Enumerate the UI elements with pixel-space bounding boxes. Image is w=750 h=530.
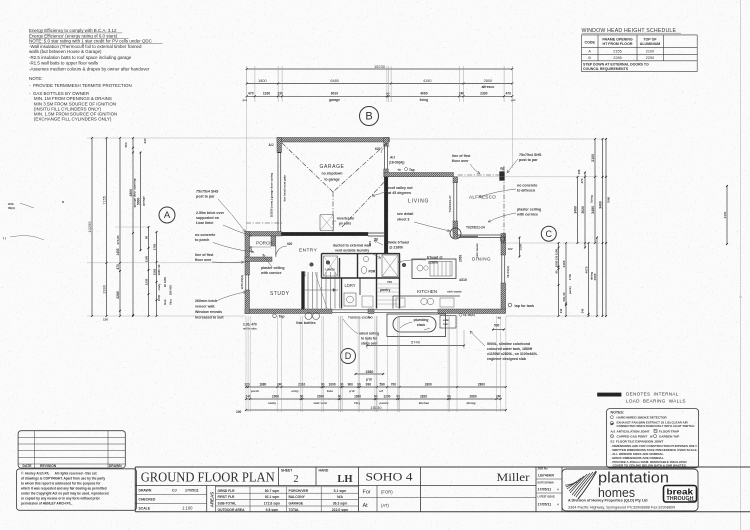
svg-text:plumbing: plumbing: [414, 318, 429, 322]
svg-text:2/20-09(A): 2/20-09(A): [240, 275, 244, 289]
svg-text:CHECKED: CHECKED: [139, 498, 156, 502]
svg-text:to garage: to garage: [324, 178, 339, 182]
svg-text:(18-O6(A)): (18-O6(A)): [389, 161, 404, 165]
svg-text:900: 900: [348, 382, 354, 386]
svg-text:1455: 1455: [116, 248, 120, 255]
svg-text:3490: 3490: [591, 206, 595, 214]
svg-text:Window reveals: Window reveals: [195, 310, 222, 314]
svg-text:1800: 1800: [258, 79, 266, 83]
svg-text:garage: garage: [142, 196, 146, 206]
svg-text:2250: 2250: [646, 56, 654, 60]
svg-text:LB746KR: LB746KR: [538, 474, 554, 478]
svg-text:© Henley Arch P/L All ri: © Henley Arch P/L All rights reserved - …: [21, 472, 98, 476]
svg-text:PORCH/VER: PORCH/VER: [289, 489, 309, 493]
svg-text:stairs over: stairs over: [361, 342, 378, 346]
svg-text:roof valley not: roof valley not: [388, 186, 413, 190]
svg-text:470: 470: [580, 178, 584, 183]
svg-text:120: 120: [103, 318, 108, 322]
svg-text:240: 240: [559, 308, 563, 313]
svg-text:3020: 3020: [581, 206, 585, 214]
svg-text:720: 720: [387, 280, 392, 284]
svg-text:no concrete: no concrete: [195, 233, 215, 237]
svg-text:7666: 7666: [606, 196, 610, 203]
svg-text:PDR: PDR: [369, 270, 376, 274]
svg-text:SUB-TOTAL: SUB-TOTAL: [218, 502, 237, 506]
svg-text:120: 120: [244, 382, 250, 386]
svg-text:( ): ( ): [3, 236, 6, 240]
svg-text:620: 620: [375, 147, 381, 151]
svg-text:1100: 1100: [145, 255, 149, 262]
svg-text:FIRST FLR: FIRST FLR: [218, 495, 235, 499]
svg-text:2800: 2800: [484, 79, 492, 83]
svg-text:-R1.5 wall batts to upper floo: -R1.5 wall batts to upper floor walls: [29, 61, 99, 66]
svg-text:post to par: post to par: [519, 158, 538, 162]
svg-text:2: 2: [294, 474, 299, 485]
svg-text:A: A: [164, 210, 171, 221]
svg-text:LINEN: LINEN: [325, 268, 335, 272]
svg-text:2310: 2310: [298, 382, 305, 386]
svg-text:1090: 1090: [519, 243, 523, 250]
svg-text:4060: 4060: [420, 92, 428, 96]
svg-text:at 45 degrees: at 45 degrees: [388, 191, 411, 195]
svg-text:DATE: DATE: [23, 464, 33, 468]
svg-text:under the Copyright Act no par: under the Copyright Act no part may be u…: [21, 492, 109, 496]
svg-text:1230, 90: 1230, 90: [157, 264, 161, 275]
svg-text:1980: 1980: [354, 394, 361, 398]
svg-text:135: 135: [554, 255, 558, 260]
svg-text:line of first: line of first: [195, 253, 214, 257]
svg-text:DENOTES INTERNAL: DENOTES INTERNAL: [626, 392, 679, 397]
svg-text:GARDEN TAP: GARDEN TAP: [659, 434, 679, 438]
svg-text:100: 100: [236, 410, 242, 414]
svg-text:dp: dp: [398, 168, 402, 172]
svg-text:4310: 4310: [459, 278, 467, 282]
svg-text:3364 Pacific Highway, Springwo: 3364 Pacific Highway, Springwood Ph:3290…: [568, 506, 675, 510]
svg-text:16-24(A): 16-24(A): [506, 266, 510, 278]
svg-text:JOB No: JOB No: [538, 467, 549, 471]
svg-text:with cornice: with cornice: [516, 213, 538, 217]
svg-text:1750: 1750: [568, 273, 572, 280]
svg-text:90: 90: [386, 92, 390, 96]
svg-text:2990: 2990: [102, 285, 106, 293]
svg-text:90: 90: [357, 382, 361, 386]
svg-text:stack: stack: [417, 323, 426, 327]
svg-text:2900: 2900: [272, 394, 279, 398]
svg-text:17/05/11: 17/05/11: [538, 503, 552, 507]
svg-text:36.3 sqm: 36.3 sqm: [333, 502, 348, 506]
svg-text:290 955: 290 955: [169, 285, 173, 296]
svg-text:470: 470: [116, 264, 120, 270]
svg-text:dp: dp: [500, 167, 504, 171]
svg-text:l'dry: l'dry: [169, 299, 173, 305]
svg-text:DINING: DINING: [472, 257, 491, 262]
svg-text:study: study: [268, 401, 276, 405]
svg-text:470,80: 470,80: [116, 235, 120, 245]
svg-text:see detail: see detail: [397, 212, 413, 216]
svg-text:pst: pst: [243, 98, 247, 102]
svg-text:porch: porch: [251, 389, 260, 393]
svg-text:For: For: [363, 490, 371, 496]
svg-text:A/J: A/J: [390, 156, 395, 160]
svg-text:1565: 1565: [153, 268, 157, 275]
svg-text:GARAGE: GARAGE: [320, 164, 345, 170]
svg-text:90: 90: [447, 394, 451, 398]
svg-text:6480: 6480: [330, 79, 338, 83]
svg-text:NOTES:: NOTES:: [611, 411, 625, 415]
svg-text:-R2.5 insulation batts to roof: -R2.5 insulation batts to roof space inc…: [29, 55, 132, 60]
svg-text:NOTE: 5.0 star rating with 1 s: NOTE: 5.0 star rating with 1 star credit…: [29, 38, 153, 43]
svg-text:with cornice: with cornice: [260, 271, 281, 275]
svg-text:plantation: plantation: [598, 470, 669, 487]
svg-text:K/V: K/V: [508, 247, 513, 251]
svg-text:@ 2160h: @ 2160h: [389, 246, 403, 250]
svg-text:17/05/11: 17/05/11: [185, 489, 199, 493]
svg-text:lndo: lndo: [327, 389, 333, 393]
svg-text:1680: 1680: [259, 382, 266, 386]
svg-text:STEP DOWN AT EXTERNAL DOORS TO: STEP DOWN AT EXTERNAL DOORS TO: [583, 63, 649, 67]
svg-text:N/A: N/A: [337, 495, 343, 499]
svg-text:Energy Efficiency to comply wi: Energy Efficiency to comply with B.C.A. …: [29, 28, 117, 33]
svg-text:700: 700: [391, 382, 397, 386]
svg-text:LOAD BEARING WALLS: LOAD BEARING WALLS: [626, 399, 686, 404]
svg-text:D: D: [345, 351, 352, 361]
svg-text:CONNECTED SIMULTANEOUSLY WITH: CONNECTED SIMULTANEOUSLY WITH LIGHT SWIT…: [617, 424, 695, 428]
svg-text:470: 470: [505, 92, 511, 96]
svg-text:ALUMINIUM: ALUMINIUM: [640, 42, 661, 46]
svg-text:line of first: line of first: [452, 154, 471, 158]
svg-text:increased to suit: increased to suit: [195, 316, 224, 320]
svg-text:low head room gdor: low head room gdor: [283, 174, 287, 202]
svg-text:plaster ceiling: plaster ceiling: [517, 208, 541, 212]
svg-text:ducted to external wall: ducted to external wall: [333, 244, 371, 248]
svg-text:engineer designed slab: engineer designed slab: [487, 357, 526, 361]
svg-text:raked ceiling: raked ceiling: [359, 332, 379, 336]
svg-text:09(A): 09(A): [8, 206, 15, 210]
svg-text:HARD WIRED SMOKE DETECTOR: HARD WIRED SMOKE DETECTOR: [617, 416, 668, 420]
svg-text:l'dry: l'dry: [354, 401, 361, 405]
svg-text:4075: 4075: [584, 266, 588, 273]
svg-text:pv cells: pv cells: [339, 222, 351, 226]
svg-text:90: 90: [300, 394, 304, 398]
svg-text:Miller: Miller: [497, 472, 530, 484]
svg-text:ENTRY: ENTRY: [299, 248, 318, 254]
svg-text:floor over: floor over: [452, 159, 469, 163]
svg-text:A/J: A/J: [611, 429, 616, 433]
svg-text:tap for tank: tap for tank: [515, 304, 535, 308]
svg-text:permission of HENLEY ARCH P/L.: permission of HENLEY ARCH P/L.: [21, 502, 72, 506]
svg-text:90: 90: [145, 236, 149, 240]
svg-text:Gas bottles: Gas bottles: [296, 321, 316, 325]
svg-text:2680: 2680: [470, 394, 477, 398]
svg-text:2820: 2820: [420, 394, 427, 398]
svg-text:DRAWN: DRAWN: [139, 489, 152, 493]
svg-text:AREAS: AREAS: [210, 492, 215, 507]
svg-text:living: living: [590, 195, 594, 203]
svg-text:Tap: Tap: [279, 315, 286, 319]
svg-text:to whom this report is address: to whom this report is addressed for the…: [21, 482, 101, 486]
svg-text:590: 590: [494, 324, 500, 328]
svg-text:2330: 2330: [480, 92, 488, 96]
svg-text:2285: 2285: [613, 56, 621, 60]
svg-text:2.30, 470: 2.30, 470: [243, 323, 257, 327]
svg-text:garage: garage: [329, 98, 340, 102]
svg-text:GARAGE: GARAGE: [289, 502, 304, 506]
svg-text:FLOOR TRAP: FLOOR TRAP: [659, 429, 679, 433]
svg-text:of drawings is COPYRIGHT. Apar: of drawings is COPYRIGHT. Apart from use…: [21, 477, 105, 481]
svg-text:2058: 2058: [459, 255, 463, 262]
svg-text:2800: 2800: [478, 382, 485, 386]
svg-text:2280: 2280: [116, 291, 120, 299]
svg-text:1:100: 1:100: [182, 506, 193, 511]
svg-text:LH: LH: [337, 474, 352, 485]
svg-text:TOP OF: TOP OF: [643, 38, 657, 42]
svg-text:walls (but between House & Gar: walls (but between House & Garage): [29, 49, 102, 54]
svg-text:HAND: HAND: [319, 469, 329, 473]
svg-text:NOTE:: NOTE:: [29, 76, 43, 81]
svg-text:no concrete: no concrete: [517, 184, 537, 188]
svg-text:A Division of Henley Propertie: A Division of Henley Properties (QLD) Pt…: [568, 499, 648, 503]
svg-text:pantry: pantry: [568, 285, 572, 293]
svg-text:study: study: [157, 283, 161, 290]
svg-text:222.0 sqm: 222.0 sqm: [332, 508, 348, 512]
svg-text:alfresco: alfresco: [482, 85, 495, 89]
svg-text:SERIES: SERIES: [688, 500, 697, 503]
svg-text:-Assumes medium colours & drap: -Assumes medium colours & drapes by owne…: [29, 66, 150, 71]
svg-text:dining: dining: [467, 401, 476, 405]
svg-text:supported on: supported on: [196, 216, 219, 220]
svg-text:16-18(A): 16-18(A): [463, 313, 475, 317]
svg-text:pst: pst: [511, 98, 515, 102]
svg-text:REVISION: REVISION: [40, 464, 57, 468]
svg-text:SOHO 4: SOHO 4: [366, 472, 413, 484]
svg-text:COUNCIL REQUIREMENTS: COUNCIL REQUIREMENTS: [583, 67, 629, 71]
svg-text:pantry: pantry: [380, 288, 390, 292]
svg-text:DRAWN: DRAWN: [109, 464, 122, 468]
svg-text:990: 990: [366, 382, 372, 386]
svg-text:floor over: floor over: [195, 258, 212, 262]
svg-text:5.1 sqm: 5.1 sqm: [334, 489, 347, 493]
svg-text:530, 90: 530, 90: [562, 292, 566, 301]
svg-text:to lndo for: to lndo for: [361, 337, 378, 341]
svg-text:(EXCHANGE FILL CYLINDERS ONLY): (EXCHANGE FILL CYLINDERS ONLY): [29, 117, 112, 122]
svg-text:KITCHEN: KITCHEN: [417, 289, 437, 294]
svg-text:4150: 4150: [423, 79, 431, 83]
svg-text:stair void: stair void: [313, 401, 327, 405]
svg-text:1000: 1000: [554, 260, 558, 267]
svg-text:1100: 1100: [554, 248, 558, 255]
svg-text:inverter for: inverter for: [337, 217, 355, 221]
svg-text:LIVING: LIVING: [408, 199, 429, 205]
svg-text:2280h: 2280h: [428, 261, 438, 265]
svg-text:CODE: CODE: [585, 41, 596, 45]
svg-text:560: 560: [124, 142, 128, 147]
svg-text:80.7 sqm: 80.7 sqm: [265, 489, 280, 493]
svg-text:10265: 10265: [87, 221, 92, 233]
svg-text:A/J: A/J: [269, 143, 274, 147]
svg-text:STUDY: STUDY: [270, 291, 290, 297]
svg-text:15230: 15230: [374, 64, 386, 69]
svg-text:7155: 7155: [102, 196, 106, 204]
svg-text:T02XD21-24: T02XD21-24: [466, 225, 485, 229]
svg-text:ALFRESCO: ALFRESCO: [469, 195, 496, 200]
svg-text:- PROVIDE TERMIMESH TERMITE P: - PROVIDE TERMIMESH TERMITE PROTECTION: [29, 83, 132, 88]
svg-text:1580: 1580: [365, 370, 373, 374]
svg-text:BALCONY: BALCONY: [289, 495, 306, 499]
svg-text:vent outside laundry: vent outside laundry: [335, 249, 369, 253]
svg-text:CAPPED GAS POINT: CAPPED GAS POINT: [617, 434, 648, 438]
svg-text:p'dr: p'dr: [349, 389, 355, 393]
svg-text:5000L, slimline colorbond: 5000L, slimline colorbond: [487, 342, 530, 346]
svg-text:CJ: CJ: [172, 489, 177, 493]
svg-text:DATE DRAWN: DATE DRAWN: [538, 482, 554, 485]
svg-text:p'dr: p'dr: [366, 378, 373, 382]
svg-text:6010: 6010: [331, 92, 339, 96]
svg-text:1545: 1545: [157, 294, 161, 301]
svg-text:240: 240: [577, 169, 581, 174]
svg-text:(AT): (AT): [381, 503, 389, 508]
svg-text:veneer wall.: veneer wall.: [195, 305, 215, 309]
svg-text:no stepdown: no stepdown: [322, 172, 343, 176]
svg-text:PORCH: PORCH: [256, 241, 273, 246]
svg-text:OUTDOOR AREA: OUTDOOR AREA: [218, 508, 246, 512]
svg-text:LATEST ISSUE:: LATEST ISSUE:: [538, 496, 556, 499]
svg-text:Tap: Tap: [409, 168, 415, 172]
svg-text:2155: 2155: [613, 50, 621, 54]
svg-text:1000: 1000: [329, 382, 336, 386]
svg-text:coloured water tank, 1880H: coloured water tank, 1880H: [487, 347, 533, 351]
svg-text:entry: entry: [291, 389, 299, 393]
svg-text:B: B: [588, 56, 591, 60]
svg-text:to alfresco: to alfresco: [517, 189, 536, 193]
svg-text:sink waste: sink waste: [447, 290, 462, 294]
svg-text:2100: 2100: [723, 211, 727, 218]
svg-text:75x75x4 SHS: 75x75x4 SHS: [196, 190, 219, 194]
svg-text:470: 470: [248, 92, 254, 96]
svg-text:2100: 2100: [591, 154, 595, 162]
svg-text:240: 240: [581, 308, 585, 313]
svg-text:92.1 sqm: 92.1 sqm: [265, 495, 280, 499]
svg-text:B: B: [365, 111, 372, 123]
svg-text:ref: ref: [379, 389, 383, 393]
svg-text:3465: 3465: [562, 260, 566, 267]
svg-text:HT FROM FLOOR: HT FROM FLOOR: [603, 42, 633, 46]
svg-text:260mm brick: 260mm brick: [195, 299, 217, 303]
svg-text:1230: 1230: [145, 278, 149, 285]
svg-text:3300: 3300: [425, 382, 432, 386]
svg-text:1200: 1200: [383, 394, 390, 398]
svg-text:FRAME OPENING: FRAME OPENING: [602, 38, 633, 42]
svg-text:LDRY: LDRY: [345, 283, 356, 288]
svg-text:2.50w brick over: 2.50w brick over: [196, 211, 225, 215]
svg-text:post to par: post to par: [196, 195, 215, 199]
svg-text:SCALE: SCALE: [139, 507, 151, 511]
svg-text:GROUND FLOOR PLAN: GROUND FLOOR PLAN: [141, 470, 275, 485]
svg-text:x1150W x2800L, on 3100x640L: x1150W x2800L, on 3100x640L: [487, 352, 538, 356]
svg-text:C: C: [546, 229, 553, 239]
svg-text:240: 240: [143, 138, 147, 143]
svg-text:or copied by any means or in a: or copied by any means or in any form wi…: [21, 497, 101, 501]
svg-text:At: At: [363, 503, 369, 509]
svg-text:590: 590: [379, 382, 385, 386]
svg-text:t-bar lintel: t-bar lintel: [196, 221, 213, 225]
svg-text:1765: 1765: [153, 243, 157, 250]
svg-text:950: 950: [303, 271, 307, 276]
svg-text:4565: 4565: [593, 273, 597, 280]
svg-text:break: break: [667, 488, 694, 497]
svg-text:plaster ceiling: plaster ceiling: [261, 266, 285, 270]
svg-text:linen: linen: [163, 299, 167, 305]
svg-text:15130: 15130: [370, 405, 382, 410]
svg-text:SHEET: SHEET: [281, 469, 293, 473]
svg-text:(FOR): (FOR): [381, 490, 393, 495]
svg-text:T02XD21-15C,OO: T02XD21-15C,OO: [348, 316, 373, 320]
svg-text:TOTAL: TOTAL: [289, 508, 300, 512]
svg-text:90 1250: 90 1250: [163, 277, 167, 288]
svg-text:90: 90: [321, 382, 325, 386]
svg-text:which it was requested and any: which it was requested and any fair deal…: [20, 487, 107, 491]
svg-text:b'head @: b'head @: [427, 256, 443, 260]
svg-text:9.8 sqm: 9.8 sqm: [266, 508, 279, 512]
svg-text:to porch: to porch: [195, 238, 209, 242]
svg-text:EJ FLOOR TILE EXPANSION JOINT: EJ FLOOR TILE EXPANSION JOINT: [611, 439, 664, 443]
svg-text:1330: 1330: [263, 92, 271, 96]
svg-text:5600: 5600: [136, 197, 140, 205]
svg-text:T02XD21-27: T02XD21-27: [448, 195, 452, 212]
svg-text:2100: 2100: [646, 50, 654, 54]
svg-text:920: 920: [287, 242, 293, 246]
svg-text:A: A: [588, 50, 591, 54]
svg-text:sheet 3: sheet 3: [397, 218, 409, 222]
svg-text:2/2550 (nom.) garage door spri: 2/2550 (nom.) garage door spring: [270, 173, 274, 217]
svg-text:living: living: [420, 98, 429, 102]
svg-text:5740: 5740: [411, 340, 421, 345]
svg-text:kitchen: kitchen: [419, 401, 430, 405]
svg-text:GRND FLR: GRND FLR: [218, 489, 236, 493]
svg-text:90: 90: [554, 270, 558, 273]
svg-text:180wde b'head: 180wde b'head: [384, 241, 409, 245]
svg-text:ARTICULATION JOINT: ARTICULATION JOINT: [617, 429, 650, 433]
svg-text:3490: 3490: [598, 201, 602, 209]
svg-text:17/05/11: 17/05/11: [538, 488, 552, 492]
svg-text:172.8 sqm: 172.8 sqm: [264, 502, 280, 506]
svg-text:3490: 3490: [574, 206, 578, 214]
svg-text:75x75x4 SHS: 75x75x4 SHS: [519, 153, 542, 157]
